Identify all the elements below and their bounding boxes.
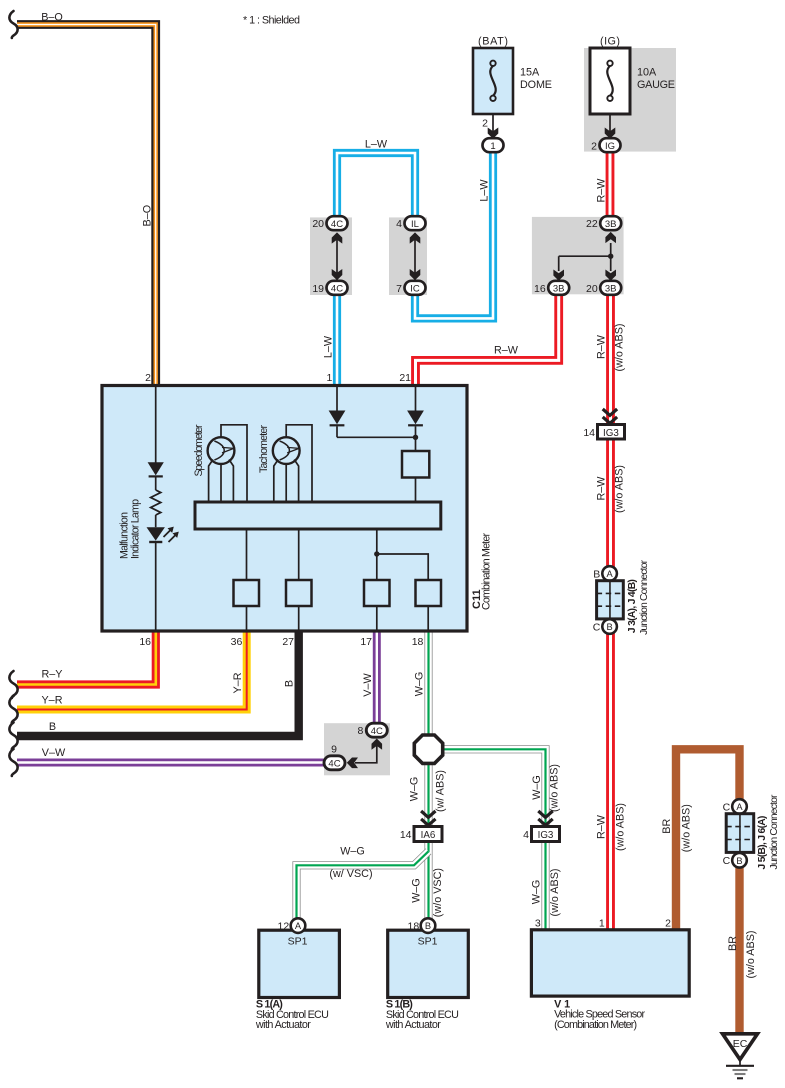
svg-text:(w/ VSC): (w/ VSC) bbox=[329, 868, 372, 880]
driver square pin17 bbox=[364, 580, 390, 606]
svg-text:DOME: DOME bbox=[520, 79, 552, 91]
S1(B) Skid Control ECU box bbox=[388, 930, 469, 997]
svg-text:(w/o ABS): (w/o ABS) bbox=[614, 465, 626, 513]
svg-text:4C: 4C bbox=[331, 284, 343, 295]
svg-text:L–W: L–W bbox=[323, 335, 335, 358]
connector 4C pin20 oval bbox=[327, 216, 348, 230]
fuse 10A GAUGE (IG) bbox=[590, 36, 675, 115]
svg-text:(w/ ABS): (w/ ABS) bbox=[435, 770, 447, 812]
svg-text:Combination Meter: Combination Meter bbox=[481, 533, 493, 610]
fuse lead and pin 2 (IG) bbox=[609, 114, 611, 132]
svg-text:SP1: SP1 bbox=[288, 935, 308, 947]
svg-text:IL: IL bbox=[411, 219, 419, 230]
svg-text:3B: 3B bbox=[553, 284, 565, 295]
svg-text:(w/o ABS): (w/o ABS) bbox=[745, 930, 757, 978]
svg-text:10A: 10A bbox=[637, 67, 657, 79]
connector 3B pin22 oval bbox=[600, 216, 621, 230]
svg-text:BR: BR bbox=[661, 818, 673, 833]
svg-text:with Actuator: with Actuator bbox=[385, 1019, 441, 1031]
connector oval 1 bbox=[483, 138, 504, 152]
junction connector J5(B) J6(A) bbox=[723, 794, 780, 870]
svg-text:W–G: W–G bbox=[531, 775, 543, 800]
wire R-W (3B pin16 to meter pin 21) bbox=[416, 294, 559, 388]
svg-text:18: 18 bbox=[408, 920, 420, 932]
svg-text:(w/o ABS): (w/o ABS) bbox=[549, 868, 561, 916]
wire W-G (noise filter branch to IG3 pin4 and V1 pin3) bbox=[441, 749, 546, 930]
svg-text:3B: 3B bbox=[605, 284, 617, 295]
double arrow on W-G above IG3 (lower) bbox=[538, 811, 552, 825]
svg-text:A: A bbox=[736, 802, 743, 812]
wire L-W (fuse DOME to IC pin7) bbox=[415, 152, 493, 319]
svg-text:IG: IG bbox=[605, 141, 615, 152]
diode at meter pin 1 bbox=[329, 387, 346, 437]
pin B circle S1(B) bbox=[421, 918, 436, 933]
connector 3B pin16 oval bbox=[548, 281, 569, 295]
pass-through arrows IL/IC bbox=[414, 238, 416, 274]
3B internal branch arrows bbox=[605, 232, 616, 243]
svg-text:W–G: W–G bbox=[409, 777, 421, 802]
svg-text:7: 7 bbox=[396, 283, 402, 295]
junction node below bus bbox=[374, 551, 379, 556]
svg-text:IA6: IA6 bbox=[421, 830, 436, 841]
svg-text:V–W: V–W bbox=[42, 747, 66, 759]
wire L-W (IL pin4 up and over to 4C pin20) bbox=[337, 153, 415, 217]
svg-text:4C: 4C bbox=[331, 219, 343, 230]
svg-text:* 1 : Shielded: * 1 : Shielded bbox=[243, 15, 300, 27]
wire V-W (4C pin9 to left) bbox=[17, 759, 326, 767]
connector 4C pin8 oval bbox=[366, 723, 387, 737]
driver square pin36 bbox=[234, 580, 260, 606]
svg-text:GAUGE: GAUGE bbox=[637, 79, 675, 91]
svg-text:R–W: R–W bbox=[596, 476, 608, 501]
bus bar rectangle bbox=[195, 502, 441, 529]
wire L-W (4C pin19 down to meter pin 1) bbox=[333, 294, 341, 388]
connector box IG3 pin4 bbox=[532, 827, 560, 842]
svg-text:B: B bbox=[49, 721, 56, 733]
svg-text:W–G: W–G bbox=[413, 672, 425, 697]
svg-text:W–G: W–G bbox=[531, 880, 543, 905]
connector 4C pin9 oval bbox=[324, 756, 345, 770]
wire bus to squares 17/18 bbox=[377, 529, 428, 580]
svg-text:4: 4 bbox=[523, 829, 529, 841]
wire bus to square 27 bbox=[298, 529, 300, 580]
break squiggle V-W bbox=[9, 749, 17, 776]
diode D (MIL branch) bbox=[148, 462, 164, 490]
svg-text:14: 14 bbox=[583, 427, 595, 439]
svg-text:14: 14 bbox=[400, 829, 412, 841]
svg-text:Junction Connector: Junction Connector bbox=[769, 794, 780, 870]
noise filter octagon bbox=[414, 735, 442, 763]
S1(A) Skid Control ECU box bbox=[259, 930, 340, 997]
svg-text:B: B bbox=[593, 568, 600, 580]
break squiggle B bbox=[9, 723, 17, 750]
fuse 15A DOME (BAT) bbox=[473, 36, 552, 115]
svg-text:2: 2 bbox=[591, 141, 597, 153]
svg-text:B: B bbox=[284, 680, 296, 687]
svg-text:18: 18 bbox=[412, 636, 424, 648]
svg-text:L–W: L–W bbox=[365, 138, 388, 150]
connector 3B pin20 oval bbox=[600, 281, 621, 295]
connector box IA6 pin14 bbox=[414, 827, 442, 842]
svg-text:W–G: W–G bbox=[340, 846, 365, 858]
speedometer gauge bbox=[208, 425, 247, 502]
wire joining diodes bbox=[337, 436, 416, 438]
svg-text:W–G: W–G bbox=[410, 878, 422, 903]
combination meter C11 box bbox=[102, 386, 467, 632]
svg-text:Indicator Lamp: Indicator Lamp bbox=[129, 499, 141, 559]
pin A circle S1(A) bbox=[291, 918, 306, 933]
gray panel connector 4C (8/9) bbox=[324, 723, 390, 775]
svg-text:R–W: R–W bbox=[494, 345, 519, 357]
svg-text:27: 27 bbox=[282, 636, 294, 648]
svg-text:(BAT): (BAT) bbox=[478, 36, 508, 48]
LED malfunction indicator lamp bbox=[147, 527, 179, 542]
arrow into connector 1 bbox=[488, 128, 499, 139]
gray panel connector IL/IC bbox=[389, 217, 427, 295]
svg-text:B: B bbox=[736, 856, 742, 866]
svg-text:R–W: R–W bbox=[595, 178, 607, 203]
leads squares to bottom pins bbox=[246, 606, 248, 630]
svg-text:R–W: R–W bbox=[596, 814, 608, 839]
svg-text:15A: 15A bbox=[520, 67, 540, 79]
svg-text:Tachometer: Tachometer bbox=[258, 425, 270, 473]
svg-text:20: 20 bbox=[586, 283, 598, 295]
svg-text:B: B bbox=[606, 622, 612, 632]
svg-text:9: 9 bbox=[331, 744, 337, 756]
svg-text:2: 2 bbox=[665, 918, 671, 930]
svg-text:BR: BR bbox=[727, 936, 739, 951]
svg-text:SP1: SP1 bbox=[418, 935, 438, 947]
wire BR (V1 pin2 over junction connector to ground EC) bbox=[676, 749, 740, 1034]
svg-text:36: 36 bbox=[231, 636, 243, 648]
svg-text:22: 22 bbox=[586, 218, 598, 230]
svg-text:Junction Connector: Junction Connector bbox=[639, 559, 650, 635]
wire pin2 internal lead bbox=[155, 387, 157, 463]
4C internal arrow to pin9 bbox=[355, 742, 377, 763]
svg-text:4: 4 bbox=[396, 218, 402, 230]
wire square to bus bbox=[415, 478, 417, 503]
svg-text:(w/o ABS): (w/o ABS) bbox=[615, 803, 627, 851]
svg-text:IC: IC bbox=[410, 284, 420, 295]
svg-text:2: 2 bbox=[482, 118, 488, 130]
svg-text:L–W: L–W bbox=[479, 179, 491, 202]
break squiggle R-Y bbox=[9, 671, 17, 698]
wire R-W (fuse GAUGE to 3B pin22) bbox=[606, 152, 615, 218]
wire LED to pin16 bbox=[155, 543, 157, 630]
svg-text:B: B bbox=[425, 921, 431, 931]
connector IL pin4 oval bbox=[405, 216, 426, 230]
svg-text:3B: 3B bbox=[605, 219, 617, 230]
wire Y-R (meter pin36 to left) bbox=[17, 630, 247, 710]
svg-text:(Combination Meter): (Combination Meter) bbox=[554, 1019, 637, 1031]
wire W-G (meter pin18 through noise filter to S1B pinB) bbox=[424, 630, 432, 919]
double arrow on W-G above IA6 bbox=[421, 811, 435, 825]
svg-text:2: 2 bbox=[145, 372, 151, 384]
svg-text:C: C bbox=[723, 801, 731, 813]
svg-text:B–O: B–O bbox=[141, 205, 153, 227]
svg-text:21: 21 bbox=[399, 372, 411, 384]
svg-text:Speedometer: Speedometer bbox=[193, 424, 205, 476]
connector box IG3 pin14 bbox=[598, 425, 625, 440]
gray panel connector 4C (20/19) bbox=[310, 217, 352, 295]
svg-text:(IG): (IG) bbox=[600, 36, 620, 48]
connector IC pin7 oval bbox=[405, 281, 426, 295]
svg-text:EC: EC bbox=[733, 1038, 748, 1050]
svg-text:Y–R: Y–R bbox=[41, 695, 62, 707]
svg-text:J 3(A), J 4(B): J 3(A), J 4(B) bbox=[627, 579, 638, 633]
amplifier square U bbox=[402, 451, 429, 478]
junction connector J3(A) J4(B) bbox=[593, 559, 650, 635]
svg-text:19: 19 bbox=[312, 283, 324, 295]
svg-text:R–Y: R–Y bbox=[41, 669, 62, 681]
svg-text:16: 16 bbox=[534, 283, 546, 295]
connector oval IG bbox=[600, 138, 621, 152]
svg-text:V–W: V–W bbox=[362, 672, 374, 696]
driver square pin18 bbox=[416, 580, 442, 606]
V1 Vehicle Speed Sensor box bbox=[531, 930, 689, 996]
svg-text:20: 20 bbox=[312, 218, 324, 230]
svg-text:4C: 4C bbox=[371, 726, 383, 737]
svg-text:A: A bbox=[295, 921, 302, 931]
driver square pin27 bbox=[286, 580, 312, 606]
junction node at diodes bbox=[413, 435, 418, 440]
wire R-W (3B pin20 down to V1 pin1) bbox=[606, 294, 615, 931]
svg-text:8: 8 bbox=[357, 725, 363, 737]
fuse lead and pin 2 (BAT) bbox=[492, 114, 494, 132]
svg-text:(w/o ABS): (w/o ABS) bbox=[614, 323, 626, 371]
double arrow on R-W above IG3 bbox=[603, 409, 617, 423]
svg-text:A: A bbox=[606, 569, 613, 579]
wire V-W (meter pin17 to 4C pin8) bbox=[373, 630, 381, 724]
gray panel connector 3B bbox=[532, 217, 624, 294]
svg-text:J 5(B), J 6(A): J 5(B), J 6(A) bbox=[757, 816, 768, 870]
svg-text:(w/o ABS): (w/o ABS) bbox=[681, 804, 693, 852]
svg-text:R–W: R–W bbox=[596, 334, 608, 359]
svg-text:with Actuator: with Actuator bbox=[255, 1019, 311, 1031]
svg-text:1: 1 bbox=[327, 372, 333, 384]
svg-text:1: 1 bbox=[490, 141, 495, 152]
break squiggle Y-R bbox=[9, 696, 17, 723]
svg-text:4C: 4C bbox=[328, 759, 340, 770]
svg-text:16: 16 bbox=[139, 636, 151, 648]
break squiggle B-O bbox=[9, 11, 17, 38]
wire B (meter pin27 to left) bbox=[17, 630, 299, 736]
svg-text:IG3: IG3 bbox=[538, 830, 554, 841]
svg-text:(w/o VSC): (w/o VSC) bbox=[432, 868, 444, 917]
svg-text:17: 17 bbox=[360, 636, 372, 648]
wire W-G (branch to S1A pinA) bbox=[297, 851, 429, 919]
wire R-Y (meter pin16 to left) bbox=[17, 630, 156, 685]
svg-text:C: C bbox=[723, 855, 731, 867]
wire B-O (battery to meter pin 2) bbox=[17, 25, 156, 388]
svg-text:1: 1 bbox=[599, 918, 605, 930]
svg-text:(w/o ABS): (w/o ABS) bbox=[549, 764, 561, 812]
wire to LED bbox=[155, 515, 157, 527]
wire bus to square 36 bbox=[246, 529, 248, 580]
connector 4C pin19 oval bbox=[327, 281, 348, 295]
diode at meter pin 21 bbox=[407, 387, 424, 451]
arrow into connector IG bbox=[605, 128, 616, 139]
svg-text:C: C bbox=[593, 621, 601, 633]
svg-text:IG3: IG3 bbox=[603, 428, 619, 439]
svg-text:Y–R: Y–R bbox=[232, 672, 244, 693]
tachometer gauge bbox=[273, 425, 312, 502]
svg-text:3: 3 bbox=[535, 918, 541, 930]
resistor (MIL branch) bbox=[151, 490, 161, 515]
ground EC bbox=[723, 1034, 758, 1079]
svg-text:B–O: B–O bbox=[41, 11, 63, 23]
svg-text:12: 12 bbox=[278, 920, 290, 932]
gray panel fuse IG bbox=[584, 48, 676, 152]
pass-through arrows 4C bbox=[336, 238, 338, 274]
